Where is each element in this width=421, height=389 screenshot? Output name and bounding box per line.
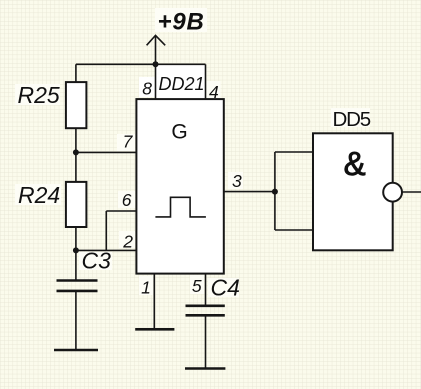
svg-text:G: G (171, 121, 187, 144)
svg-text:DD21: DD21 (159, 74, 205, 94)
svg-text:R25: R25 (18, 82, 60, 108)
svg-text:2: 2 (122, 232, 133, 252)
svg-text:DD5: DD5 (333, 108, 371, 131)
svg-text:6: 6 (122, 190, 132, 210)
svg-text:C3: C3 (82, 247, 112, 273)
svg-text:8: 8 (142, 79, 152, 99)
svg-text:+9В: +9В (158, 9, 205, 36)
svg-text:3: 3 (232, 171, 242, 191)
svg-text:1: 1 (141, 278, 151, 298)
svg-text:5: 5 (192, 276, 202, 296)
svg-text:R24: R24 (18, 182, 60, 208)
svg-text:4: 4 (209, 82, 219, 102)
svg-text:7: 7 (123, 132, 134, 152)
svg-text:C4: C4 (211, 275, 240, 301)
svg-text:&: & (344, 145, 366, 182)
